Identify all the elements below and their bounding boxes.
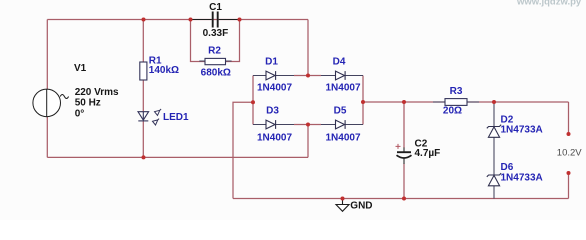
wire left vertical <box>46 20 48 158</box>
svg-text:www.jqdzw.py: www.jqdzw.py <box>516 0 582 8</box>
svg-text:D4: D4 <box>333 57 346 68</box>
junction R1 top node <box>142 18 146 22</box>
svg-text:D1: D1 <box>265 57 278 68</box>
svg-text:R2: R2 <box>208 46 221 57</box>
wire R2 loop left <box>191 20 206 62</box>
svg-text:20Ω: 20Ω <box>443 106 462 117</box>
svg-text:D3: D3 <box>266 106 279 117</box>
LED LED1 <box>138 109 161 125</box>
svg-text:50 Hz: 50 Hz <box>75 98 101 109</box>
svg-text:680kΩ: 680kΩ <box>201 68 231 79</box>
diode D4 <box>336 71 346 80</box>
svg-text:10.2V: 10.2V <box>557 148 582 159</box>
svg-text:1N4007: 1N4007 <box>325 133 360 144</box>
wire R1 branch upper <box>142 20 144 63</box>
diode D3 <box>266 120 276 129</box>
svg-text:GND: GND <box>350 200 372 211</box>
svg-text:1N4007: 1N4007 <box>257 83 292 94</box>
zener diode D2 <box>487 125 501 138</box>
junction GND node <box>341 197 345 201</box>
resistor R2 <box>199 60 231 62</box>
wire bridge bottom feed vertical <box>307 125 309 158</box>
svg-text:220 Vrms: 220 Vrms <box>75 87 119 98</box>
wire LED1 to bottom rail <box>142 121 144 157</box>
svg-text:1N4007: 1N4007 <box>325 83 360 94</box>
terminal output positive <box>567 132 571 136</box>
wire bridge left to ground rail <box>233 102 253 198</box>
diode D5 <box>336 120 346 129</box>
svg-text:4.7µF: 4.7µF <box>415 148 441 159</box>
junction bridge negative node <box>251 100 255 104</box>
junction bridge positive node <box>361 100 365 104</box>
svg-text:1N4733A: 1N4733A <box>501 125 543 136</box>
terminal output negative <box>567 171 571 175</box>
svg-text:R3: R3 <box>450 86 463 97</box>
svg-text:D5: D5 <box>334 106 347 117</box>
wire R2 loop right <box>226 20 240 62</box>
wire bridge left edge <box>252 76 254 125</box>
capacitor C2 <box>397 152 412 158</box>
voltage source V1 <box>33 89 69 117</box>
capacitor C1 <box>191 12 240 28</box>
wire ground rail horizontal <box>233 198 569 200</box>
junction C1 right node <box>238 18 242 22</box>
wire output right vertical lower <box>568 173 570 199</box>
svg-text:0.33F: 0.33F <box>203 28 229 39</box>
wire zener branch vertical (D2/D6 pins) <box>493 102 495 199</box>
wire bottom-left horizontal <box>47 156 308 158</box>
ground symbol <box>336 199 349 212</box>
svg-text:V1: V1 <box>74 63 87 74</box>
svg-text:0°: 0° <box>75 108 85 119</box>
svg-text:1N4733A: 1N4733A <box>501 173 543 184</box>
wire top horizontal <box>47 19 308 21</box>
wire bridge top feed vertical <box>307 20 309 76</box>
junction LED1 bottom node <box>142 155 146 159</box>
wire R1 to LED1 <box>142 80 144 112</box>
junction bridge AC top node <box>306 74 310 78</box>
junction C2 top node <box>402 100 406 104</box>
wire C2 branch lower <box>403 164 405 199</box>
junction zener top node <box>492 100 496 104</box>
resistor R3 <box>433 101 479 103</box>
junction C1 left node <box>189 18 193 22</box>
svg-text:LED1: LED1 <box>163 112 189 123</box>
svg-text:C1: C1 <box>209 2 222 13</box>
junction bridge AC bottom node <box>306 123 310 127</box>
svg-text:D6: D6 <box>501 162 514 173</box>
wire bridge right edge <box>362 76 364 125</box>
wire C2 branch upper <box>403 102 405 148</box>
svg-text:1N4007: 1N4007 <box>257 133 292 144</box>
wire bridge ac nodes <box>294 76 321 125</box>
svg-text:140kΩ: 140kΩ <box>149 65 179 76</box>
wire output right vertical upper <box>568 102 570 134</box>
capacitor C2 pin stubs <box>403 148 405 165</box>
wire output mid horizontal <box>363 101 569 103</box>
zener diode D6 <box>487 173 501 186</box>
junction C2 bottom node <box>402 197 406 201</box>
diode D1 <box>266 71 276 80</box>
resistor R1 <box>140 62 147 80</box>
bridge rails (diode pins) <box>253 76 363 125</box>
